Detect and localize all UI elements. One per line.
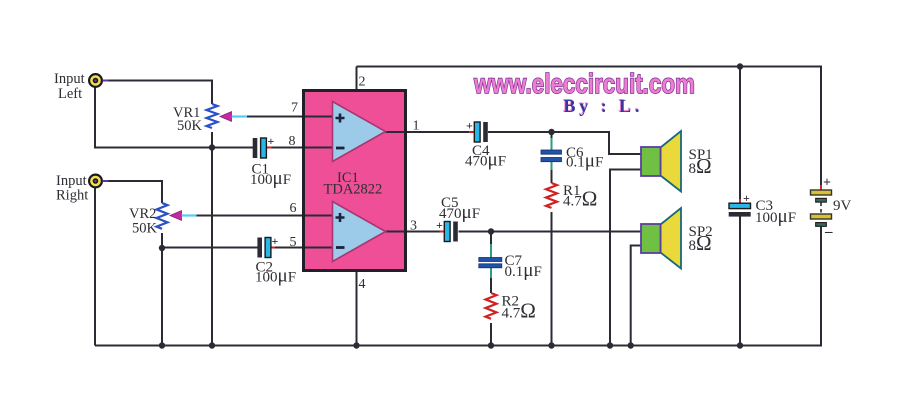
capacitor C3 — [729, 191, 751, 217]
svg-text:6: 6 — [290, 201, 297, 216]
capacitor C1 — [253, 134, 275, 158]
capacitor C6 — [541, 150, 562, 162]
svg-text:+: + — [823, 176, 831, 191]
potentiometer VR2 — [157, 203, 197, 229]
svg-text:7: 7 — [291, 101, 298, 116]
svg-text:100μF: 100μF — [255, 266, 296, 287]
op-amp A (top) — [333, 102, 386, 162]
capacitor C5 — [436, 218, 458, 242]
wire C3 column top — [739, 67, 741, 200]
svg-text:TDA2822: TDA2822 — [324, 182, 383, 198]
capacitor C2 — [257, 234, 278, 258]
svg-text:3: 3 — [410, 219, 417, 234]
wire VR2 wiper to pin 6 — [195, 215, 333, 217]
wire node3 to C7 — [490, 232, 492, 246]
svg-text:Input: Input — [54, 71, 85, 87]
ground node pin 4 — [353, 342, 359, 348]
potentiometer VR1 — [207, 104, 248, 128]
svg-text:4: 4 — [359, 277, 366, 292]
wire C2 to pin 5 — [271, 247, 333, 249]
node pin1-C6 — [548, 129, 554, 135]
wire R2 to ground — [490, 323, 492, 346]
capacitor C7 — [479, 258, 502, 268]
node pin3-C7 — [488, 228, 494, 234]
wire VR2 node to C2 — [162, 247, 258, 249]
wire jack R to VR2 top — [102, 181, 162, 203]
wire C6 teal stub bottom — [551, 162, 553, 171]
resistor R1 — [546, 183, 557, 208]
wire SP1 bottom to ground — [610, 170, 642, 346]
svg-text:8: 8 — [289, 134, 296, 149]
wire node1 to C6 — [551, 132, 553, 139]
battery 9V — [811, 176, 834, 241]
svg-text:1: 1 — [413, 119, 420, 134]
svg-text:5: 5 — [290, 235, 297, 250]
input jack left — [89, 74, 108, 87]
wire C5 to SP2 top — [459, 231, 643, 233]
node VR2-C2 — [159, 245, 165, 251]
wire pin 2 to top rail — [356, 67, 358, 90]
input jack right — [89, 175, 108, 188]
op-amp B (bottom) — [333, 202, 386, 262]
wire jack L down to node — [95, 88, 253, 148]
wire C6 to R1 — [551, 169, 553, 183]
wire pin 3 to C5 — [386, 231, 441, 233]
pin numbers — [289, 75, 420, 293]
wire jack L to VR1 top — [102, 81, 212, 105]
svg-text:+: + — [272, 234, 279, 248]
wire C6 teal stub top — [551, 138, 553, 150]
ground node SP2 — [628, 342, 634, 348]
wire SP2 bottom to ground — [631, 246, 642, 346]
ground node R2 — [488, 342, 494, 348]
speaker SP1 — [641, 131, 681, 192]
svg-text:0.1μF: 0.1μF — [566, 151, 603, 172]
wire R1 to ground — [551, 212, 553, 346]
wire C7 teal stub bottom — [490, 268, 492, 279]
svg-text:2: 2 — [359, 75, 366, 90]
top rail — [357, 67, 822, 191]
svg-text:+: + — [268, 134, 275, 148]
svg-text:By : L.: By : L. — [564, 96, 640, 116]
svg-text:–: – — [824, 224, 833, 240]
svg-text:470μF: 470μF — [439, 202, 480, 223]
svg-text:+: + — [743, 191, 750, 205]
wire pin 1 to C4 — [386, 131, 471, 133]
speaker SP2 — [641, 208, 681, 269]
svg-text:Left: Left — [58, 86, 82, 102]
wire C7 teal stub top — [490, 244, 492, 258]
op-amp IC1 TDA2822 — [304, 91, 406, 271]
wire C3 column bottom — [739, 216, 741, 346]
wire VR1 node to ground — [211, 148, 213, 346]
svg-text:9V: 9V — [833, 198, 852, 214]
wire jack R down to ground rail — [94, 188, 96, 346]
wire C1 to pin 8 — [267, 147, 333, 149]
wire C7 to R2 — [490, 277, 492, 293]
byline By : L. — [563, 95, 640, 116]
svg-text:50K: 50K — [177, 118, 203, 134]
svg-text:0.1μF: 0.1μF — [505, 260, 542, 281]
svg-text:50K: 50K — [132, 221, 158, 237]
wire VR2 bottom to node — [161, 233, 163, 248]
ground node VR1 — [209, 342, 215, 348]
wire C4 to SP1 top — [488, 132, 642, 154]
wire battery bottom lead — [820, 227, 822, 346]
ground node C3 — [737, 342, 743, 348]
ground node VR2 — [159, 342, 165, 348]
svg-text:Right: Right — [56, 188, 88, 204]
svg-text:+: + — [466, 119, 473, 133]
ground rail — [95, 226, 821, 346]
svg-text:100μF: 100μF — [250, 168, 291, 189]
wire pin 4 to ground — [356, 272, 358, 346]
wire VR2 node to ground — [161, 248, 163, 346]
ground node R1 — [548, 342, 554, 348]
resistor R2 — [486, 293, 497, 319]
node top rail C3 — [737, 63, 743, 69]
teal cap stubs — [491, 138, 552, 278]
svg-text:100μF: 100μF — [755, 206, 796, 227]
svg-text:470μF: 470μF — [465, 150, 506, 171]
wire VR1 bottom to node — [211, 132, 213, 148]
ground node SP1 — [607, 342, 613, 348]
capacitor C4 — [466, 119, 488, 143]
wire VR1 wiper to pin 7 — [246, 116, 333, 118]
node VR1-C1 — [209, 144, 215, 150]
